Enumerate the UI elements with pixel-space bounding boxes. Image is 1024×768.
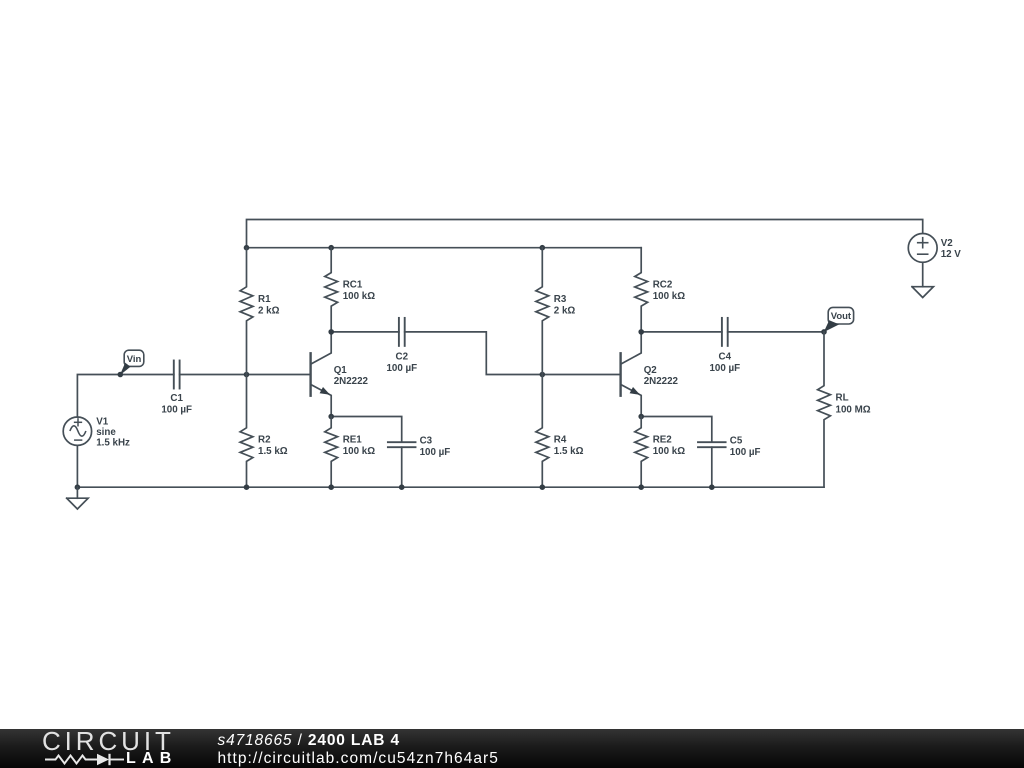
junction base1-R1R2 <box>244 372 250 378</box>
wire V1 to C1 input <box>77 375 173 418</box>
resistor R4 <box>536 375 549 488</box>
wire Q1 collector to C2 <box>331 331 399 333</box>
svg-text:RE2: RE2 <box>653 435 673 446</box>
label R4 1.5 kOhm <box>554 435 584 458</box>
resistor R1 <box>240 248 253 375</box>
label V2 12 V <box>941 238 962 260</box>
ground symbol V2 <box>912 287 933 298</box>
wire V2 to ground <box>922 262 924 286</box>
svg-text:100 kΩ: 100 kΩ <box>653 446 686 457</box>
label C5 100 uF <box>730 435 761 458</box>
svg-text:Vout: Vout <box>831 311 852 322</box>
resistor RE1 <box>325 417 338 488</box>
junction gnd-C5 <box>709 484 715 490</box>
wire V+ distribution rail <box>247 247 642 249</box>
wire C1 to Q1 base <box>180 374 310 376</box>
label C4 100 uF <box>709 351 740 374</box>
capacitor C3 <box>388 442 416 447</box>
junction base2-R3R4 <box>540 372 546 378</box>
junction emitter2 <box>638 414 644 420</box>
junction collector2 <box>638 329 644 335</box>
svg-text:C5: C5 <box>730 435 743 446</box>
voltage source V1 sine <box>63 417 91 445</box>
label C2 100 uF <box>386 351 417 374</box>
label R2 1.5 kOhm <box>258 435 288 458</box>
footer logo resistor-diode glyph <box>44 752 134 768</box>
svg-text:2N2222: 2N2222 <box>644 376 679 387</box>
junction rail-RC1 <box>328 245 334 251</box>
footer LAB text <box>126 751 177 767</box>
svg-text:1.5 kΩ: 1.5 kΩ <box>554 446 584 457</box>
transistor Q1 2N2222 <box>311 332 369 417</box>
svg-text:sine: sine <box>96 427 116 438</box>
svg-text:RL: RL <box>836 393 849 404</box>
label RC1 100 kOhm <box>343 279 376 302</box>
footer CircuitLab logo text CIRCUIT <box>42 728 175 754</box>
label C3 100 uF <box>420 435 451 458</box>
wire C4 to Vout <box>728 331 824 333</box>
svg-text:V2: V2 <box>941 238 954 249</box>
svg-text:R3: R3 <box>554 294 567 305</box>
wire Q2 collector to C4 <box>641 331 722 333</box>
wire C5 to ground rail <box>711 447 713 487</box>
junction rail-R3 <box>540 245 546 251</box>
svg-text:12 V: 12 V <box>941 249 962 260</box>
svg-text:100 kΩ: 100 kΩ <box>653 291 686 302</box>
wire C3 to ground rail <box>401 447 403 487</box>
junction gnd-V1 <box>75 484 81 490</box>
voltage source V2 12V <box>908 234 937 263</box>
transistor Q2 2N2222 <box>621 332 679 417</box>
svg-text:1.5 kΩ: 1.5 kΩ <box>258 446 288 457</box>
node Vin flag <box>118 350 144 377</box>
junction emitter1 <box>328 414 334 420</box>
label RL 100 MOhm <box>836 393 871 416</box>
resistor RL <box>818 332 831 487</box>
label R1 2 kOhm <box>258 294 280 317</box>
svg-text:100 µF: 100 µF <box>709 363 740 374</box>
wire V1 to ground rail <box>76 445 78 487</box>
svg-text:C1: C1 <box>170 393 183 404</box>
resistor R3 <box>536 248 549 375</box>
svg-text:C2: C2 <box>396 351 409 362</box>
junction gnd-RE2 <box>638 484 644 490</box>
svg-text:C4: C4 <box>719 351 732 362</box>
svg-text:1.5 kHz: 1.5 kHz <box>96 437 130 448</box>
wire C2 to Q2 base <box>405 332 619 375</box>
label RC2 100 kOhm <box>653 279 686 302</box>
junction gnd-RE1 <box>328 484 334 490</box>
label R3 2 kOhm <box>554 294 576 317</box>
resistor R2 <box>240 375 253 488</box>
svg-text:2 kΩ: 2 kΩ <box>258 305 280 316</box>
capacitor C1 <box>174 361 180 389</box>
label V1 sine 1.5 kHz <box>96 416 130 448</box>
svg-text:R4: R4 <box>554 435 567 446</box>
footer url <box>218 751 499 767</box>
footer bar <box>0 729 1024 768</box>
svg-text:100 µF: 100 µF <box>386 363 417 374</box>
svg-text:100 µF: 100 µF <box>161 404 192 415</box>
wire ground rail <box>77 486 824 488</box>
svg-text:RE1: RE1 <box>343 435 363 446</box>
label RE2 100 kOhm <box>653 435 686 458</box>
svg-text:RC1: RC1 <box>343 279 363 290</box>
junction collector1 <box>328 329 334 335</box>
svg-text:100 µF: 100 µF <box>420 447 451 458</box>
junction gnd-R2 <box>244 484 250 490</box>
ground symbol left <box>67 487 88 509</box>
svg-text:Vin: Vin <box>127 354 142 365</box>
label C1 100 uF <box>161 393 192 416</box>
svg-text:R2: R2 <box>258 435 271 446</box>
svg-text:R1: R1 <box>258 294 271 305</box>
wire Q2 emitter to C5 <box>641 417 712 443</box>
resistor RC2 <box>635 248 648 332</box>
resistor RE2 <box>635 417 648 488</box>
node Vout flag <box>821 307 853 334</box>
junction gnd-R4 <box>540 484 546 490</box>
resistor RC1 <box>325 248 338 332</box>
svg-text:2N2222: 2N2222 <box>334 376 369 387</box>
wire Q1 emitter to C3 <box>331 417 402 443</box>
svg-text:RC2: RC2 <box>653 279 673 290</box>
svg-text:100 MΩ: 100 MΩ <box>836 404 871 415</box>
svg-text:100 kΩ: 100 kΩ <box>343 291 376 302</box>
svg-text:V1: V1 <box>96 416 109 427</box>
svg-text:100 kΩ: 100 kΩ <box>343 446 376 457</box>
capacitor C5 <box>698 442 726 447</box>
svg-text:Q2: Q2 <box>644 365 658 376</box>
svg-text:2 kΩ: 2 kΩ <box>554 305 576 316</box>
junction rail-R1 <box>244 245 250 251</box>
junction gnd-C3 <box>399 484 405 490</box>
capacitor C2 <box>399 318 405 346</box>
svg-text:C3: C3 <box>420 435 433 446</box>
capacitor C4 <box>722 318 728 346</box>
svg-text:100 µF: 100 µF <box>730 447 761 458</box>
wire V+ top rail <box>247 220 923 248</box>
svg-text:Q1: Q1 <box>334 365 348 376</box>
label RE1 100 kOhm <box>343 435 376 458</box>
footer schematic id <box>218 733 400 749</box>
